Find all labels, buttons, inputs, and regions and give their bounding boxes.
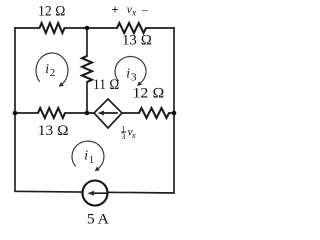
svg-text:–: – (141, 3, 149, 17)
svg-text:i: i (126, 65, 130, 80)
svg-text:2: 2 (50, 67, 56, 79)
svg-text:x: x (131, 130, 136, 140)
svg-text:x: x (131, 8, 136, 18)
svg-text:+: + (111, 2, 118, 17)
svg-text:i: i (84, 147, 88, 162)
svg-text:13 Ω: 13 Ω (122, 33, 152, 49)
svg-text:1: 1 (89, 155, 94, 166)
svg-text:3: 3 (131, 71, 137, 83)
svg-text:12 Ω: 12 Ω (133, 86, 165, 102)
svg-text:5 A: 5 A (87, 212, 110, 228)
svg-text:i: i (45, 61, 49, 76)
svg-text:12 Ω: 12 Ω (38, 4, 66, 20)
svg-text:11 Ω: 11 Ω (93, 77, 120, 93)
svg-text:13 Ω: 13 Ω (38, 123, 69, 139)
svg-text:3: 3 (121, 132, 125, 141)
